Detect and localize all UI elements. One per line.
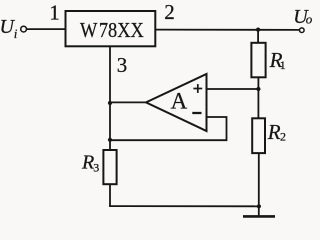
svg-text:o: o xyxy=(306,11,313,26)
svg-text:1: 1 xyxy=(49,0,60,24)
svg-text:3: 3 xyxy=(93,161,99,175)
svg-text:A: A xyxy=(171,89,188,114)
svg-text:2: 2 xyxy=(164,0,175,24)
svg-text:R: R xyxy=(267,120,281,144)
svg-text:i: i xyxy=(14,26,18,41)
svg-text:3: 3 xyxy=(117,53,128,77)
svg-text:1: 1 xyxy=(280,58,286,72)
svg-text:W 78XX: W 78XX xyxy=(80,18,144,42)
svg-text:2: 2 xyxy=(280,129,286,143)
